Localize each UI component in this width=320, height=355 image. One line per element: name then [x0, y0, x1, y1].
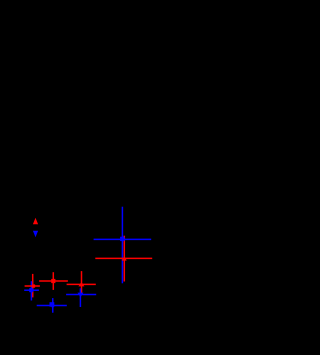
- point E red: horizontal error bar: [67, 283, 96, 285]
- point D blue: square marker: [50, 302, 55, 307]
- point F blue: horizontal error bar: [66, 294, 96, 296]
- point D blue: vertical error bar: [52, 298, 54, 313]
- point G red: horizontal error bar: [95, 257, 152, 259]
- point C red: vertical error bar: [52, 272, 54, 290]
- point H blue: horizontal error bar: [94, 238, 152, 240]
- point D blue: down triangle tip marker: [51, 307, 54, 309]
- point H blue: vertical error bar: [121, 207, 123, 284]
- point F blue: vertical error bar: [79, 288, 81, 307]
- point A red: vertical error bar (under B): [32, 274, 34, 298]
- legend marker: red up triangle: [33, 218, 38, 225]
- point E red: up triangle marker: [78, 282, 84, 286]
- point D blue: horizontal error bar: [37, 305, 67, 307]
- point B blue: square marker: [29, 288, 33, 292]
- point C red: square marker: [51, 279, 55, 283]
- point E red: vertical error bar: [81, 271, 83, 293]
- point F blue: down triangle marker: [78, 293, 84, 298]
- point A red: horizontal error bar: [25, 285, 40, 287]
- point G red: up triangle marker: [122, 256, 127, 261]
- point C red: horizontal error bar: [39, 280, 68, 282]
- legend marker: blue down triangle: [33, 231, 38, 238]
- point G red: vertical error bar (under H): [123, 236, 125, 282]
- point A red: square marker: [32, 284, 35, 287]
- point H blue: square marker: [120, 237, 124, 241]
- point B blue: vertical error bar: [30, 281, 32, 300]
- point B blue: horizontal error bar: [24, 289, 39, 291]
